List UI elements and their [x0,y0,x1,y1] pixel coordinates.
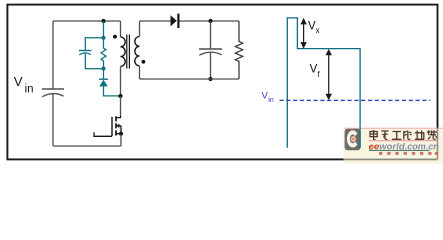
svg-text:in: in [268,97,274,104]
arrow Vf (double headed) [326,49,332,100]
wire: source to bottom rail [120,134,122,146]
watermark CJK title 电子工程世界 (stroke mock) [370,130,437,140]
watermark pink underline [369,140,437,142]
transformer core lines [127,35,130,69]
wire: top rail left section [53,20,121,22]
resistor R snubber (teal zigzag) [101,38,106,69]
node: output top junction [208,19,212,23]
capacitor C out [210,21,212,49]
border frame [7,5,437,160]
arrow Vx (double headed) [300,18,306,49]
waveform right vertical over watermark [359,128,361,148]
wire: primary vertical upper [120,21,122,37]
wire: junction to clamp diode [103,69,105,80]
node: drain junction [118,94,122,98]
wire: bottom rail [53,145,121,147]
svg-text:in: in [25,83,34,95]
phase dot primary [113,35,117,39]
diode D rectifier (output) [171,14,179,29]
watermark logo [345,129,361,150]
wire: diode to drain node [104,86,121,96]
wire: secondary lower to bottom rail [139,66,141,79]
wire: left rail lower [52,94,54,146]
waveform trace (teal) [287,18,360,148]
capacitor C snubber (teal) [79,51,92,56]
wire: secondary bottom rail [140,78,240,80]
wire: primary lower to drain node [120,66,122,96]
node: output bottom junction [208,77,212,81]
node dot on top rail (snubber tap) [101,19,105,23]
svg-text:V: V [310,63,318,75]
svg-text:V: V [14,74,23,89]
transformer T1 secondary winding [135,37,140,66]
wire: snubber branch to cap [85,38,103,51]
snubber network (teal): tap wire [103,21,105,38]
watermark teal underline [369,149,430,151]
wire: left rail upper [52,21,54,89]
diode D clamp (teal, pointing up) [99,79,108,86]
svg-text:f: f [318,70,321,79]
resistor R load [235,21,242,79]
node: snubber top junction [101,36,105,40]
MOSFET Q1 [120,96,122,117]
dashed Vin level line [280,99,431,101]
watermark small red slogan [379,152,438,155]
capacitor Cin (input bulk cap) [42,89,64,97]
watermark background [344,128,443,164]
phase dot secondary [142,60,146,64]
wire: secondary top rail [140,20,240,22]
node: snubber bottom junction [101,66,105,70]
node: source junction [119,132,123,136]
svg-text:x: x [316,26,320,35]
transformer T1 primary winding [121,37,126,66]
wire: snubber cap bottom return [85,54,103,69]
MOSFET body arrow [116,124,119,128]
wire: secondary vertical upper [139,21,141,37]
